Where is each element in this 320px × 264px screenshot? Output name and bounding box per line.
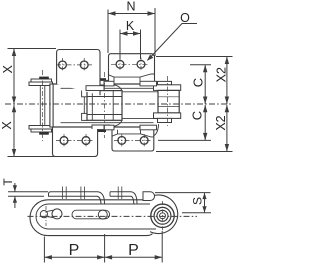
plan middle slot (72, 210, 110, 219)
left outer plate edge-on (50, 84, 53, 127)
plan roller ring 2 (154, 207, 171, 224)
plan view horizontal centerline (28, 215, 198, 217)
left pin bottom washer (31, 129, 52, 132)
center roller top end (98, 78, 106, 80)
bottom-center plate right foot curve (154, 124, 159, 136)
svg-text:S: S (190, 197, 204, 205)
plan left pin head (52, 209, 62, 219)
top-left plate far foot (86, 86, 104, 91)
svg-text:T: T (1, 178, 15, 186)
left pin bottom end (39, 132, 49, 135)
bottom-left plate hole 2 vline (85, 134, 87, 148)
svg-text:X2: X2 (214, 115, 228, 130)
plan link plate band (36, 204, 156, 229)
bottom-left plate hole 1 (60, 137, 68, 145)
bottom-left attachment plate (53, 129, 98, 157)
plan tab hole marks (62, 187, 64, 200)
dimension X2 top ext (156, 56, 233, 58)
center roller bottom end (98, 130, 106, 132)
dimension K ext left (119, 30, 121, 60)
left pin top washer (31, 79, 52, 82)
left pin vertical centerline (42, 70, 44, 141)
left bushing web (83, 97, 85, 114)
bottom-center attachment plate (112, 130, 154, 151)
dimension C bottom line (204, 105, 206, 141)
left pin shaft (39, 86, 41, 126)
pin line lower (gap) (118, 118, 160, 120)
bottom-center plate notch (112, 134, 154, 137)
upper view chain centerline (5, 103, 233, 105)
top-left plate hole 1 (59, 61, 67, 69)
left pin top plate bar (29, 82, 53, 86)
dimension P ext left (43, 237, 45, 263)
leader O line (148, 24, 197, 60)
right stack inner line upper (158, 96, 179, 98)
dimension S ext bottom (182, 212, 211, 214)
plan right attachment tab (143, 192, 155, 201)
bottom-left plate hole 1 vline (63, 134, 65, 148)
center roller bushing line lower (87, 114, 122, 116)
left pin top end (39, 77, 49, 80)
dimension X2 bottom ext (156, 151, 233, 153)
top-right plate hole crosshair h (111, 63, 149, 65)
plan middle pin circle (98, 210, 107, 219)
bottom-center plate hole 1 vline (121, 134, 123, 147)
dimension P ext right (161, 231, 163, 263)
dimension T ext bottom (8, 195, 44, 197)
svg-text:N: N (126, 0, 135, 14)
center roller bushing line upper (87, 96, 122, 98)
dimension N ext right (154, 8, 156, 56)
plan left pin vertical centerline (45, 206, 47, 226)
top-right plate hole 2 vline (140, 58, 142, 72)
plan left pin rivet (40, 211, 47, 218)
right stack inner line lower (158, 106, 179, 108)
top-right plate left foot (104, 81, 114, 86)
dimension T line (14, 183, 16, 192)
top-right plate hole 1 (116, 60, 124, 68)
dimension X bottom ext (8, 156, 57, 158)
plan second tab band (110, 192, 137, 204)
right stack bottom cap (154, 113, 181, 119)
svg-text:P: P (128, 242, 139, 259)
top-left attachment plate (57, 50, 100, 96)
dimension X top ext (8, 48, 57, 50)
bottom-center plate right foot (140, 125, 157, 130)
right stack bottom end (158, 118, 172, 122)
dimension K ext right (140, 30, 142, 60)
pin line upper (gap) (118, 91, 163, 93)
dimension X2 bottom line (226, 105, 228, 152)
left bushing bottom flange (82, 113, 87, 120)
link plate top-right curve (110, 84, 122, 91)
link plate bottom-right curve (110, 120, 122, 127)
plan second tab hole marks (117, 187, 119, 200)
dimension P ext mid (104, 234, 106, 263)
dimension T ext top (8, 191, 48, 193)
top-left plate hole 2 (80, 61, 88, 69)
bottom-left plate hole 2 (82, 137, 90, 145)
dimension N line (108, 13, 155, 15)
chain bottom inner rail (61, 122, 154, 124)
bottom-center plate hole 2 vline (143, 134, 145, 147)
plan roller outer circle (151, 204, 174, 227)
right stack body (158, 90, 179, 113)
dimension X bottom line (13, 105, 15, 157)
center roller body (87, 91, 122, 121)
dimension X2 top line (226, 57, 228, 105)
plan roller pin circle (160, 213, 166, 219)
center roller bushing right edge (112, 91, 114, 120)
plan left pin neck (47, 210, 53, 211)
center roller top cap (92, 80, 110, 85)
chain top outer rail (53, 83, 158, 85)
chain bottom outer rail (53, 126, 154, 128)
center roller bushing left edge (91, 91, 93, 120)
top-right attachment plate (109, 54, 155, 81)
center roller bottom cap (92, 125, 110, 130)
left bushing top flange (82, 90, 87, 97)
bottom-center plate left foot (104, 125, 114, 130)
bottom-center plate hole 1 (118, 137, 126, 145)
top-right plate right foot (140, 81, 157, 86)
svg-text:O: O (180, 11, 190, 25)
top-left plate hole 2 vline (83, 58, 85, 72)
svg-text:C: C (190, 111, 205, 120)
dimension C top line (204, 65, 206, 104)
svg-text:X: X (1, 64, 15, 73)
svg-text:P: P (69, 242, 80, 259)
svg-text:X: X (0, 121, 14, 130)
dimension C bottom ext (158, 139, 211, 141)
right stack top cap (154, 85, 181, 91)
bottom-center plate hole crosshair h (114, 139, 151, 141)
dimension C top ext (190, 64, 211, 66)
bottom-left plate hole crosshair h (56, 140, 94, 142)
bottom-center plate hole 2 (140, 137, 148, 145)
top-right plate hole 1 vline (119, 58, 121, 72)
top-right plate hole 2 (137, 60, 145, 68)
dimension S line (204, 193, 206, 213)
plan outer outline (30, 200, 155, 236)
dimension P line (44, 256, 162, 258)
right stack top end (158, 81, 172, 84)
dimension N ext left (107, 10, 109, 54)
svg-text:K: K (126, 19, 135, 33)
left pin bottom plate bar (29, 126, 53, 130)
top-right plate notch (109, 74, 155, 77)
plan left tab band (49, 192, 105, 204)
plan roller vertical centerline (162, 201, 164, 231)
chain top inner rail (61, 87, 158, 89)
svg-text:C: C (190, 78, 205, 87)
dimension S ext top (155, 192, 211, 194)
plan roller ring 3 (157, 210, 168, 221)
dimension K line (120, 33, 141, 35)
dimension X top line (13, 49, 15, 105)
center roller vertical centerline (104, 72, 106, 138)
top-left plate hole crosshair h (56, 64, 92, 66)
right stack vertical centerline (166, 76, 168, 126)
top-left plate hole 1 vline (62, 58, 64, 72)
